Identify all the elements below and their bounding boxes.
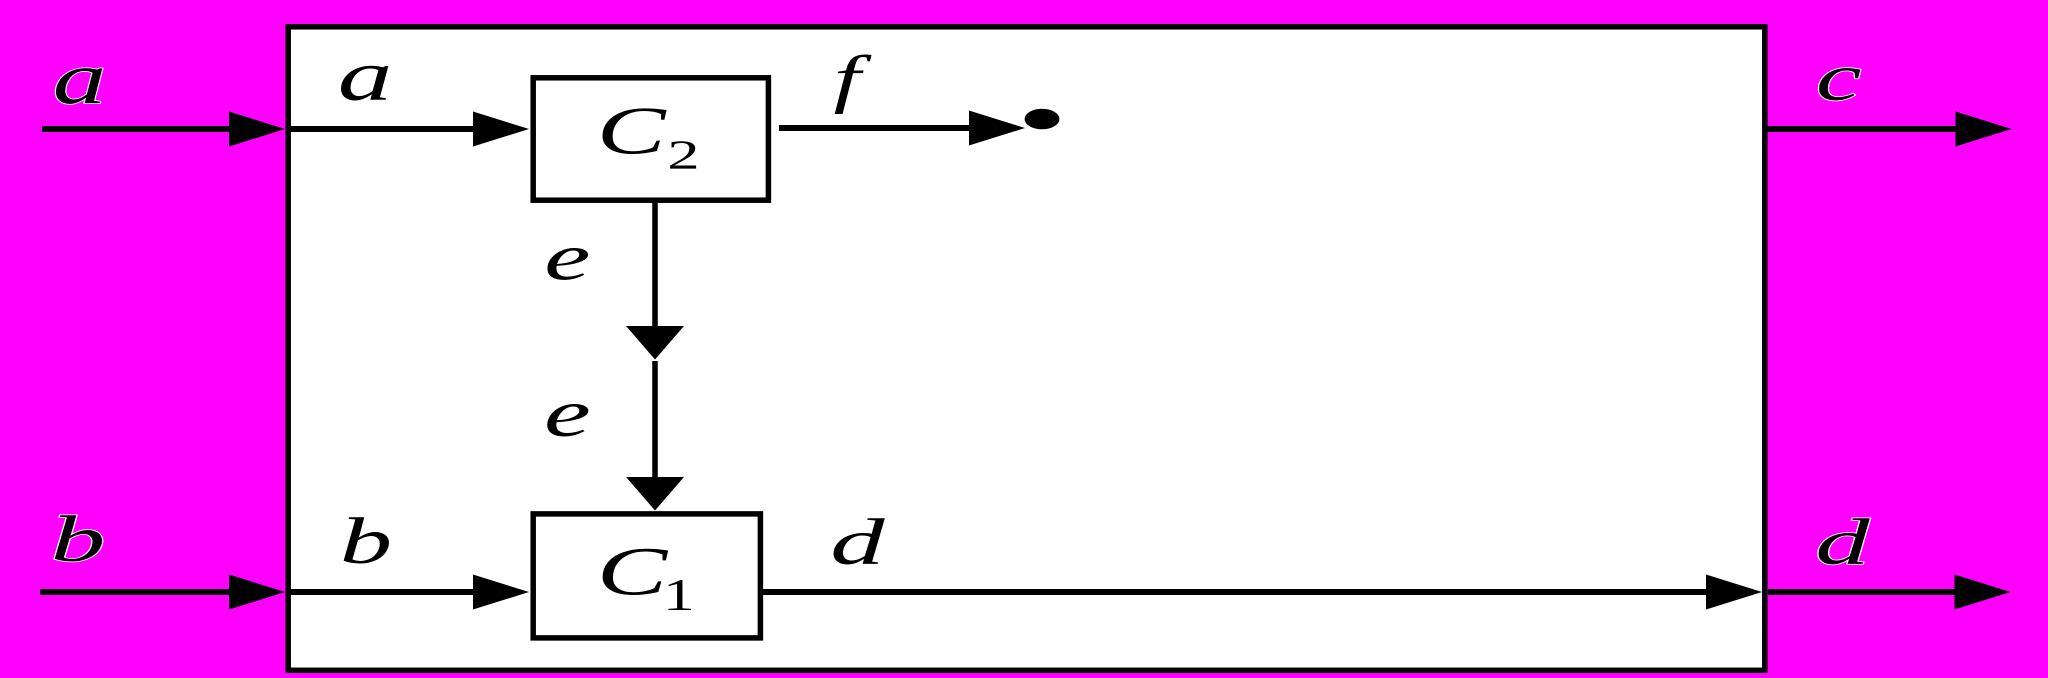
wire output d (external) (1768, 589, 1963, 595)
svg-text:b: b (51, 504, 106, 576)
svg-text:a: a (53, 37, 107, 119)
svg-text:e: e (544, 376, 591, 451)
arrowhead input a (external) (229, 112, 285, 147)
svg-text:C: C (597, 93, 667, 168)
wire input b (external) (40, 589, 237, 595)
block C1 (533, 514, 760, 638)
arrowhead wire e (lower) (626, 477, 684, 511)
svg-text:C: C (597, 533, 669, 610)
outer system box (288, 27, 1765, 671)
arrowhead output c (external) (1956, 112, 2012, 147)
svg-text:2: 2 (667, 132, 699, 178)
arrowhead wire d (internal) (1706, 575, 1762, 610)
svg-text:d: d (830, 507, 886, 579)
arrowhead wire b (internal) (473, 575, 529, 610)
wire wire e (upper) (652, 203, 658, 332)
arrowhead wire f (969, 111, 1025, 146)
wire output c (external) (1767, 126, 1964, 132)
wire wire d (internal) (763, 589, 1714, 595)
wire wire b (internal) (288, 589, 481, 595)
svg-text:b: b (340, 505, 392, 577)
arrowhead wire e (upper) (626, 326, 684, 360)
svg-text:a: a (338, 36, 393, 116)
svg-text:d: d (1815, 507, 1871, 579)
node dot (f terminus) (1025, 109, 1060, 130)
svg-text:c: c (1816, 39, 1862, 115)
wire input a (external) (42, 126, 237, 132)
wire wire e (lower) (652, 361, 658, 483)
wire wire f (779, 125, 977, 131)
svg-text:e: e (544, 220, 590, 294)
arrowhead input b (external) (229, 575, 285, 610)
arrowhead wire a (internal) (473, 112, 529, 147)
svg-text:1: 1 (663, 570, 695, 621)
arrowhead output d (external) (1955, 575, 2011, 610)
block C2 (533, 78, 768, 200)
wire wire a (internal) (288, 126, 481, 132)
